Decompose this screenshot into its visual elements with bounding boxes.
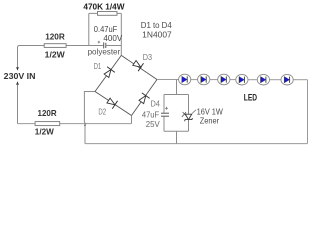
svg-text:D2: D2 bbox=[98, 108, 106, 117]
wire left vertical lower (input neutral) bbox=[17, 85, 19, 124]
terminal arrow upper (points down) bbox=[16, 67, 19, 70]
C2 polarity plus bbox=[165, 107, 168, 110]
LED4 bbox=[236, 74, 248, 85]
LED2 bbox=[198, 74, 210, 85]
svg-text:1/2W: 1/2W bbox=[45, 50, 65, 60]
svg-text:LED: LED bbox=[244, 92, 257, 103]
junction dot bbox=[84, 124, 86, 126]
svg-text:1N4007: 1N4007 bbox=[142, 30, 172, 40]
wire left vertical upper (input live) bbox=[17, 47, 19, 67]
LED string wire segments bbox=[191, 79, 308, 81]
LED5 bbox=[257, 74, 269, 85]
svg-text:47uF: 47uF bbox=[142, 109, 159, 119]
wire drop from AC wire to bottom rail bbox=[84, 124, 86, 144]
regulator box top bbox=[164, 94, 189, 96]
wire 470K box right vertical down to bridge top vertex bbox=[120, 13, 122, 55]
bridge edge NW (left vertex to top vertex) bbox=[95, 55, 121, 91]
resistor R2 120R (bottom) body bbox=[35, 122, 60, 126]
terminal arrow lower (points up) bbox=[16, 81, 19, 84]
capacitor C2 47uF plates bbox=[161, 113, 169, 116]
zener label pointer bbox=[192, 110, 196, 114]
svg-text:120R: 120R bbox=[45, 31, 65, 41]
wire feed to regulator box bbox=[176, 80, 178, 95]
svg-text:D3: D3 bbox=[143, 53, 153, 62]
diode D2 bbox=[106, 97, 118, 109]
LED3 bbox=[218, 74, 230, 85]
resistor R3 470K body bbox=[98, 12, 118, 16]
svg-text:25V: 25V bbox=[146, 119, 160, 129]
capacitor C1 0.47uF plates bbox=[104, 42, 106, 48]
diode D3 bbox=[132, 59, 144, 71]
wire DC plus from right vertex to LED string bbox=[157, 79, 179, 81]
wire regulator box bottom drop bbox=[176, 131, 178, 143]
diode D1 bbox=[103, 67, 115, 79]
svg-text:polyester: polyester bbox=[88, 46, 121, 56]
zener ZD1 16V bbox=[182, 112, 193, 121]
svg-text:400V: 400V bbox=[103, 33, 122, 43]
bridge edge NE (top vertex to right vertex) bbox=[121, 55, 157, 79]
wire 470K box left vertical bbox=[88, 13, 90, 45]
svg-text:1/2W: 1/2W bbox=[35, 126, 54, 136]
wire cap to box right bbox=[106, 45, 122, 47]
svg-text:120R: 120R bbox=[38, 108, 57, 118]
svg-text:470K 1/4W: 470K 1/4W bbox=[83, 3, 124, 12]
regulator box left upper bbox=[163, 95, 165, 113]
svg-text:230V IN: 230V IN bbox=[4, 71, 36, 81]
wire top-left horizontal from input to dropper network bbox=[18, 46, 104, 48]
wire bottom rail (DC minus) bbox=[85, 143, 308, 145]
LED6 bbox=[281, 74, 293, 85]
wire 470K box top bbox=[89, 12, 122, 14]
wire bottom-left horizontal through R2 bbox=[18, 123, 132, 125]
diode D4 bbox=[137, 93, 149, 105]
svg-text:Zener: Zener bbox=[200, 116, 219, 126]
C1 polarity plus bbox=[98, 41, 101, 44]
wire bottom vertex drop bbox=[131, 116, 133, 124]
bridge edge SE (bottom vertex to right vertex) bbox=[132, 80, 158, 116]
regulator box left lower bbox=[163, 117, 165, 132]
LED1 bbox=[179, 74, 191, 85]
wire right vertical return bbox=[307, 80, 309, 144]
bridge edge SW (left vertex to bottom vertex) bbox=[95, 92, 132, 116]
svg-text:D1: D1 bbox=[94, 62, 102, 71]
regulator box right with zener bbox=[188, 95, 190, 115]
resistor R1 120R (top) body bbox=[44, 44, 66, 48]
svg-text:D4: D4 bbox=[151, 100, 161, 109]
regulator box bottom bbox=[164, 130, 189, 132]
svg-text:D1 to D4: D1 to D4 bbox=[141, 20, 172, 30]
wire riser to bridge AC left vertex bbox=[84, 92, 95, 122]
